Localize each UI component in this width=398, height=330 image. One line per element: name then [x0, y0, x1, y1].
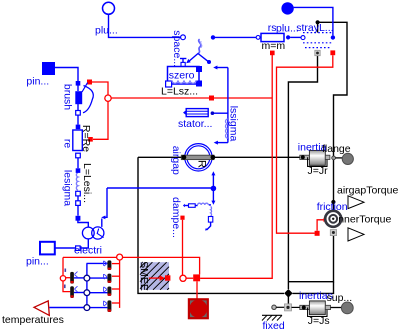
svg-text:lssigma: lssigma [227, 106, 239, 142]
svg-text:pin...: pin... [26, 256, 49, 268]
svg-text:szero: szero [169, 70, 195, 82]
svg-text:m=m: m=m [262, 40, 286, 52]
svg-text:J=Jr: J=Jr [308, 165, 329, 177]
svg-text:SMEE: SMEE [138, 261, 150, 291]
svg-text:airgap: airgap [170, 146, 182, 175]
svg-text:space...: space... [171, 30, 183, 67]
svg-text:dampe...: dampe... [170, 197, 182, 238]
svg-text:lesigma: lesigma [61, 170, 73, 206]
svg-text:brush: brush [61, 84, 73, 110]
svg-text:plu...: plu... [95, 25, 118, 37]
svg-text:sup...: sup... [327, 292, 353, 304]
svg-text:friction: friction [317, 201, 348, 213]
svg-text:J=Js: J=Js [308, 315, 330, 327]
svg-text:nnerTorque: nnerTorque [338, 214, 391, 226]
svg-text:L=Lesi...: L=Lesi... [81, 163, 93, 203]
svg-text:flange: flange [322, 143, 351, 155]
svg-text:R: R [196, 160, 208, 168]
svg-text:R=Re: R=Re [80, 125, 92, 152]
svg-text:re: re [61, 139, 73, 148]
svg-text:L=Lsz...: L=Lsz... [161, 86, 198, 98]
svg-text:fixed: fixed [263, 320, 285, 330]
svg-text:electri: electri [74, 245, 102, 257]
svg-text:pin...: pin... [26, 76, 49, 88]
svg-text:stator...: stator... [178, 118, 212, 130]
svg-text:airgapTorque: airgapTorque [337, 185, 398, 197]
svg-text:strayL...: strayL... [296, 22, 333, 34]
svg-text:temperatures: temperatures [2, 314, 64, 326]
